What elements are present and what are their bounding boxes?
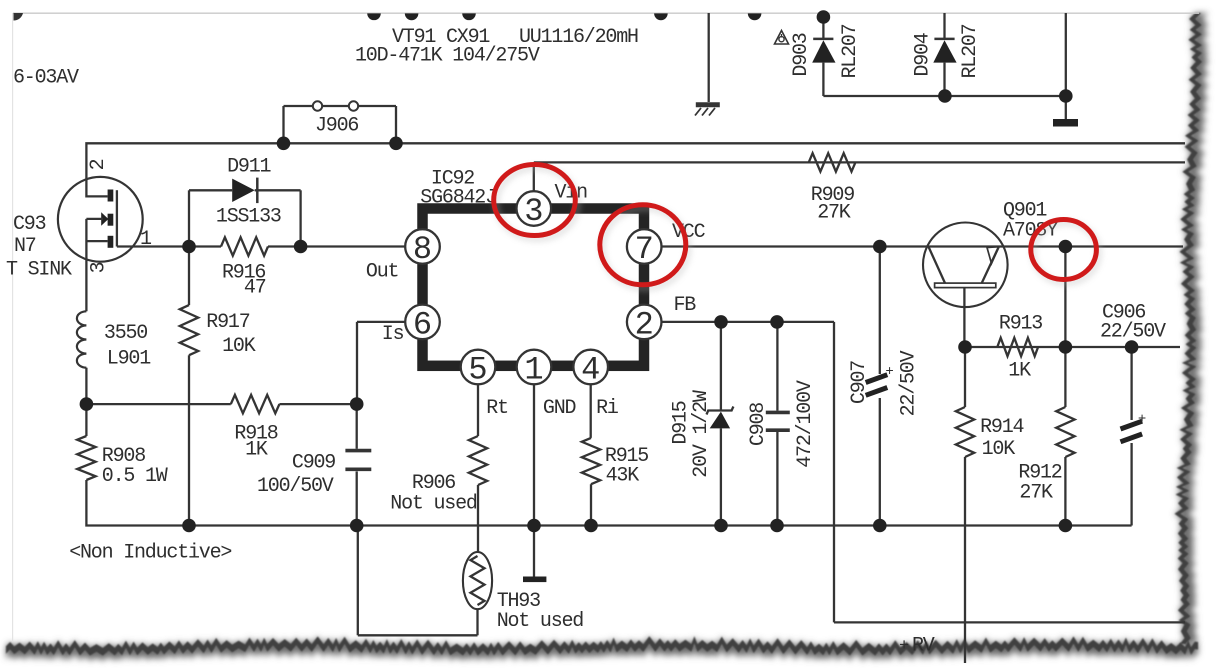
svg-text:2: 2 <box>635 306 654 343</box>
svg-text:Ri: Ri <box>596 397 618 420</box>
svg-text:7: 7 <box>635 231 654 268</box>
svg-text:20V 1/2W: 20V 1/2W <box>690 390 713 478</box>
svg-text:D904: D904 <box>912 33 935 76</box>
svg-text:3: 3 <box>88 262 111 273</box>
svg-text:+: + <box>885 364 893 380</box>
svg-text:1K: 1K <box>245 439 268 462</box>
svg-text:3: 3 <box>524 193 543 230</box>
svg-text:100/50V: 100/50V <box>257 475 334 498</box>
svg-text:43K: 43K <box>606 465 640 488</box>
svg-text:C93: C93 <box>13 213 46 236</box>
svg-text:Is: Is <box>382 323 404 346</box>
svg-text:<Non Inductive>: <Non Inductive> <box>69 542 231 565</box>
svg-text:GND: GND <box>543 397 576 420</box>
svg-text:+: + <box>899 637 909 656</box>
svg-text:4: 4 <box>581 352 600 389</box>
svg-text:1: 1 <box>524 352 543 389</box>
svg-text:D903: D903 <box>790 33 813 76</box>
svg-text:R917: R917 <box>206 311 249 334</box>
svg-text:6: 6 <box>413 306 432 343</box>
svg-text:2: 2 <box>87 159 110 170</box>
svg-text:R914: R914 <box>980 416 1023 439</box>
svg-text:22/50V: 22/50V <box>898 350 921 416</box>
svg-text:C907: C907 <box>848 361 871 404</box>
svg-text:Out: Out <box>366 261 398 284</box>
svg-text:1K: 1K <box>1008 360 1031 383</box>
svg-text:5: 5 <box>468 352 487 389</box>
svg-text:10K: 10K <box>982 438 1016 461</box>
svg-text:T SINK: T SINK <box>6 259 72 282</box>
svg-text:10D-471K 104/275V: 10D-471K 104/275V <box>355 45 540 68</box>
svg-text:N7: N7 <box>14 235 36 258</box>
svg-text:10K: 10K <box>222 335 256 358</box>
svg-text:+: + <box>1138 411 1146 427</box>
svg-text:472/100V: 472/100V <box>794 380 817 468</box>
svg-text:RV: RV <box>912 635 935 658</box>
svg-text:0.5 1W: 0.5 1W <box>102 465 168 488</box>
svg-text:Not used: Not used <box>390 493 477 516</box>
svg-text:R913: R913 <box>999 313 1042 336</box>
svg-text:27K: 27K <box>1019 482 1053 505</box>
svg-text:Rt: Rt <box>486 397 508 420</box>
svg-text:RL207: RL207 <box>839 24 862 78</box>
svg-text:FB: FB <box>674 294 697 317</box>
svg-text:1SS133: 1SS133 <box>216 206 281 229</box>
svg-text:Not used: Not used <box>497 610 584 633</box>
svg-text:27K: 27K <box>817 202 851 225</box>
svg-text:SG6842J: SG6842J <box>420 187 496 210</box>
svg-text:6-03AV: 6-03AV <box>13 67 79 90</box>
svg-text:47: 47 <box>244 277 266 300</box>
svg-text:C908: C908 <box>747 403 770 446</box>
svg-text:3550: 3550 <box>104 322 147 345</box>
svg-text:1: 1 <box>140 228 152 251</box>
svg-text:22/50V: 22/50V <box>1100 321 1166 344</box>
svg-text:J906: J906 <box>315 115 358 138</box>
svg-text:D911: D911 <box>227 156 271 179</box>
svg-text:L901: L901 <box>107 348 151 371</box>
svg-text:RL207: RL207 <box>959 24 982 78</box>
svg-text:C909: C909 <box>292 452 335 475</box>
svg-text:8: 8 <box>413 231 432 268</box>
